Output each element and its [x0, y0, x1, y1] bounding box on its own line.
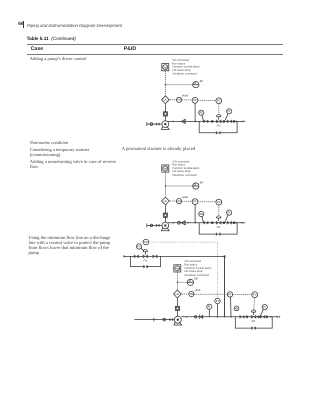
spacer dot: [266, 316, 268, 318]
svg-text:HS: HS: [190, 293, 194, 296]
column header: P&ID: [124, 46, 136, 52]
junction dot (diagram 2): [187, 222, 189, 224]
check valve: [198, 315, 200, 319]
gate valve 1: [240, 315, 245, 318]
svg-text:FT: FT: [228, 293, 232, 296]
controller FC: [143, 239, 149, 245]
column header: Case: [31, 46, 43, 52]
svg-text:FC: FC: [144, 241, 148, 244]
signal to HS local: [182, 293, 189, 295]
svg-text:JIR: JIR: [194, 278, 198, 281]
spacer dot: [246, 316, 248, 318]
junction: [270, 316, 272, 318]
svg-text:HS: HS: [176, 268, 180, 271]
junction FT2 tap: [230, 316, 232, 318]
bypass: [131, 256, 161, 266]
control valve: [143, 255, 148, 258]
extra reducer circle (diagram 2): [178, 221, 181, 224]
min flow return line: [124, 255, 224, 257]
local hand switch HS: [189, 291, 194, 296]
signal branch to JI: [177, 281, 187, 283]
diagram 1: pump driver control: [147, 59, 246, 134]
flow element FE: [234, 306, 239, 311]
table top rule: [27, 43, 283, 46]
svg-text:L/R status lamp: L/R status lamp: [184, 270, 203, 273]
svg-text:FE: FE: [235, 307, 239, 310]
suction line: [134, 319, 174, 321]
bypass globe valve: [143, 265, 147, 268]
svg-text:H/SA: H/SA: [195, 289, 201, 292]
gate valve 2: [260, 315, 265, 318]
min flow pipe down: [224, 256, 226, 316]
table caption: [27, 36, 76, 41]
svg-text:FC: FC: [253, 294, 257, 297]
bypass globe valve: [252, 327, 256, 330]
gate valve: [153, 255, 158, 258]
motor M: [176, 298, 178, 306]
svg-text:FO: FO: [252, 320, 256, 323]
transmitter FT2: [227, 292, 232, 297]
junction FT1 tap: [217, 316, 219, 318]
pressure indicator PI: [207, 304, 212, 309]
transmitter FT1: [215, 298, 220, 303]
signal FC to FT1: [149, 242, 218, 298]
continuation tick: [153, 318, 155, 322]
svg-text:FO: FO: [144, 259, 148, 262]
row 1 case text: [30, 56, 87, 61]
header bottom rule: [27, 53, 283, 56]
corner junction: [224, 255, 226, 257]
discharge line: [181, 316, 278, 318]
diagram 2: nonreturning valve added: [147, 160, 246, 235]
svg-text:UC: UC: [176, 293, 180, 296]
bypass: [235, 317, 272, 328]
reducer circle: [163, 318, 166, 321]
running head: [27, 23, 122, 28]
line end: [276, 316, 278, 318]
svg-text:Shutdown command: Shutdown command: [184, 274, 209, 277]
interlock diamond: [174, 290, 182, 298]
signal FC2 to control valve: [253, 298, 256, 312]
signal junction dot: [177, 282, 178, 283]
svg-text:FV: FV: [137, 245, 141, 248]
svg-text:JI: JI: [189, 280, 191, 283]
svg-text:PI: PI: [263, 306, 266, 309]
gate valve: [134, 255, 139, 258]
spacer dot: [258, 316, 260, 318]
row 2 case text: [30, 147, 89, 157]
signal FT2 to FC2: [233, 293, 252, 295]
pressure indicator PI3: [262, 305, 267, 310]
panel hand switch HS: [174, 265, 181, 272]
reducer circle: [195, 316, 197, 318]
row 3 case text: [30, 159, 116, 169]
svg-text:PI: PI: [208, 306, 211, 309]
junction min flow pipe: [224, 316, 226, 318]
control valve: [251, 315, 256, 318]
page number: [18, 22, 23, 27]
row 2 P&ID cell text: [122, 147, 196, 152]
row: nonroutine condition (italic subhead): [30, 140, 68, 145]
signal line from HS down: [176, 272, 178, 289]
suction gate valve (filled): [170, 318, 173, 321]
junction: [186, 316, 188, 318]
header rule bar: [22, 21, 25, 28]
indicator JI: [187, 279, 193, 285]
annotation lines: [184, 260, 212, 277]
pump P: [174, 316, 181, 323]
signal HS to FT2: [194, 293, 228, 295]
left end dot: [123, 255, 125, 257]
controller FC2: [252, 292, 258, 298]
row 4 case text: [29, 236, 111, 256]
svg-text:FT: FT: [216, 300, 220, 303]
positioner FV: [136, 244, 141, 249]
